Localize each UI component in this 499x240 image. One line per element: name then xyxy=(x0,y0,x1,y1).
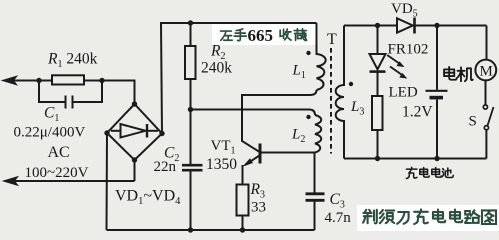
svg-text:VD1~VD4: VD1~VD4 xyxy=(115,188,181,208)
bottom rail right xyxy=(344,158,487,160)
svg-text:1.2V: 1.2V xyxy=(402,104,433,121)
wire L1 bottom to base xyxy=(242,90,317,152)
motor M xyxy=(475,26,496,81)
svg-text:AC: AC xyxy=(48,144,70,161)
svg-text:4.7n: 4.7n xyxy=(325,210,352,226)
wire xyxy=(39,80,52,82)
node L1 polarity dot xyxy=(306,51,310,55)
node bridge bottom xyxy=(132,157,137,162)
wire bridge right to top rail xyxy=(161,23,317,134)
bridge rectifier VD1-VD4 xyxy=(107,104,162,160)
capacitor C3 xyxy=(306,153,325,231)
node R2 top xyxy=(188,20,193,25)
node battery bottom xyxy=(434,156,439,161)
resistor R2 xyxy=(185,46,196,79)
diode VD5 xyxy=(397,18,415,34)
svg-text:T: T xyxy=(327,31,337,48)
svg-text:LED: LED xyxy=(389,85,418,101)
inductor L3 xyxy=(336,26,344,159)
battery 1.2V xyxy=(426,26,448,159)
wire xyxy=(190,23,192,46)
svg-text:M: M xyxy=(480,64,493,80)
svg-text:33: 33 xyxy=(251,200,266,216)
svg-text:R1 240k: R1 240k xyxy=(47,51,98,71)
capacitor C1 xyxy=(39,81,102,109)
wire emitter xyxy=(242,165,244,185)
node battery top xyxy=(434,23,439,28)
node LED branch bottom xyxy=(375,156,380,161)
node a1 xyxy=(36,78,41,83)
wire bridge bottom stub xyxy=(134,160,136,181)
inductor L1 xyxy=(317,23,326,90)
node C2 bottom xyxy=(188,227,193,232)
wire xyxy=(242,216,244,231)
node LED branch top xyxy=(375,23,380,28)
wire bridge left to bottom rail xyxy=(106,133,109,230)
svg-text:0.22μ/400V: 0.22μ/400V xyxy=(14,125,86,141)
node R2 bottom xyxy=(188,107,193,112)
LED VD6 xyxy=(370,26,407,79)
node R3 bottom xyxy=(240,227,245,232)
node bridge left xyxy=(104,130,109,135)
wire xyxy=(190,79,192,110)
inductor L2 xyxy=(315,115,321,153)
resistor R3 xyxy=(237,185,249,216)
AC input arrow top xyxy=(2,76,39,85)
resistor (LED series) xyxy=(372,72,383,159)
transistor VT1 xyxy=(244,144,316,167)
transformer core xyxy=(330,48,332,154)
svg-text:240k: 240k xyxy=(201,60,232,77)
node L3 polarity dot xyxy=(349,82,353,86)
label 电机 motor xyxy=(444,67,473,81)
wire xyxy=(84,80,102,82)
node bridge top xyxy=(132,101,137,106)
title top 左手665收藏 xyxy=(212,24,318,45)
bottom rail left xyxy=(107,229,315,231)
svg-text:665: 665 xyxy=(248,26,274,45)
switch S xyxy=(483,80,493,158)
wire R2 node to L2 top xyxy=(191,110,316,116)
AC input arrow bottom xyxy=(3,177,135,186)
svg-text:1350: 1350 xyxy=(206,156,237,173)
resistor R1 xyxy=(52,75,84,84)
wire to bridge top xyxy=(102,81,135,105)
svg-text:S: S xyxy=(469,114,477,130)
top rail right xyxy=(344,25,487,27)
svg-text:100~220V: 100~220V xyxy=(25,165,89,181)
capacitor C2 xyxy=(182,110,203,231)
svg-text:FR102: FR102 xyxy=(388,42,429,58)
label 充电电池 battery xyxy=(406,167,453,178)
node bridge right xyxy=(159,131,164,136)
svg-text:22n: 22n xyxy=(154,159,177,175)
node L2 polarity dot xyxy=(306,115,310,119)
node a2 xyxy=(99,78,104,83)
title bottom 剃须刀充电电路图 xyxy=(357,205,499,231)
